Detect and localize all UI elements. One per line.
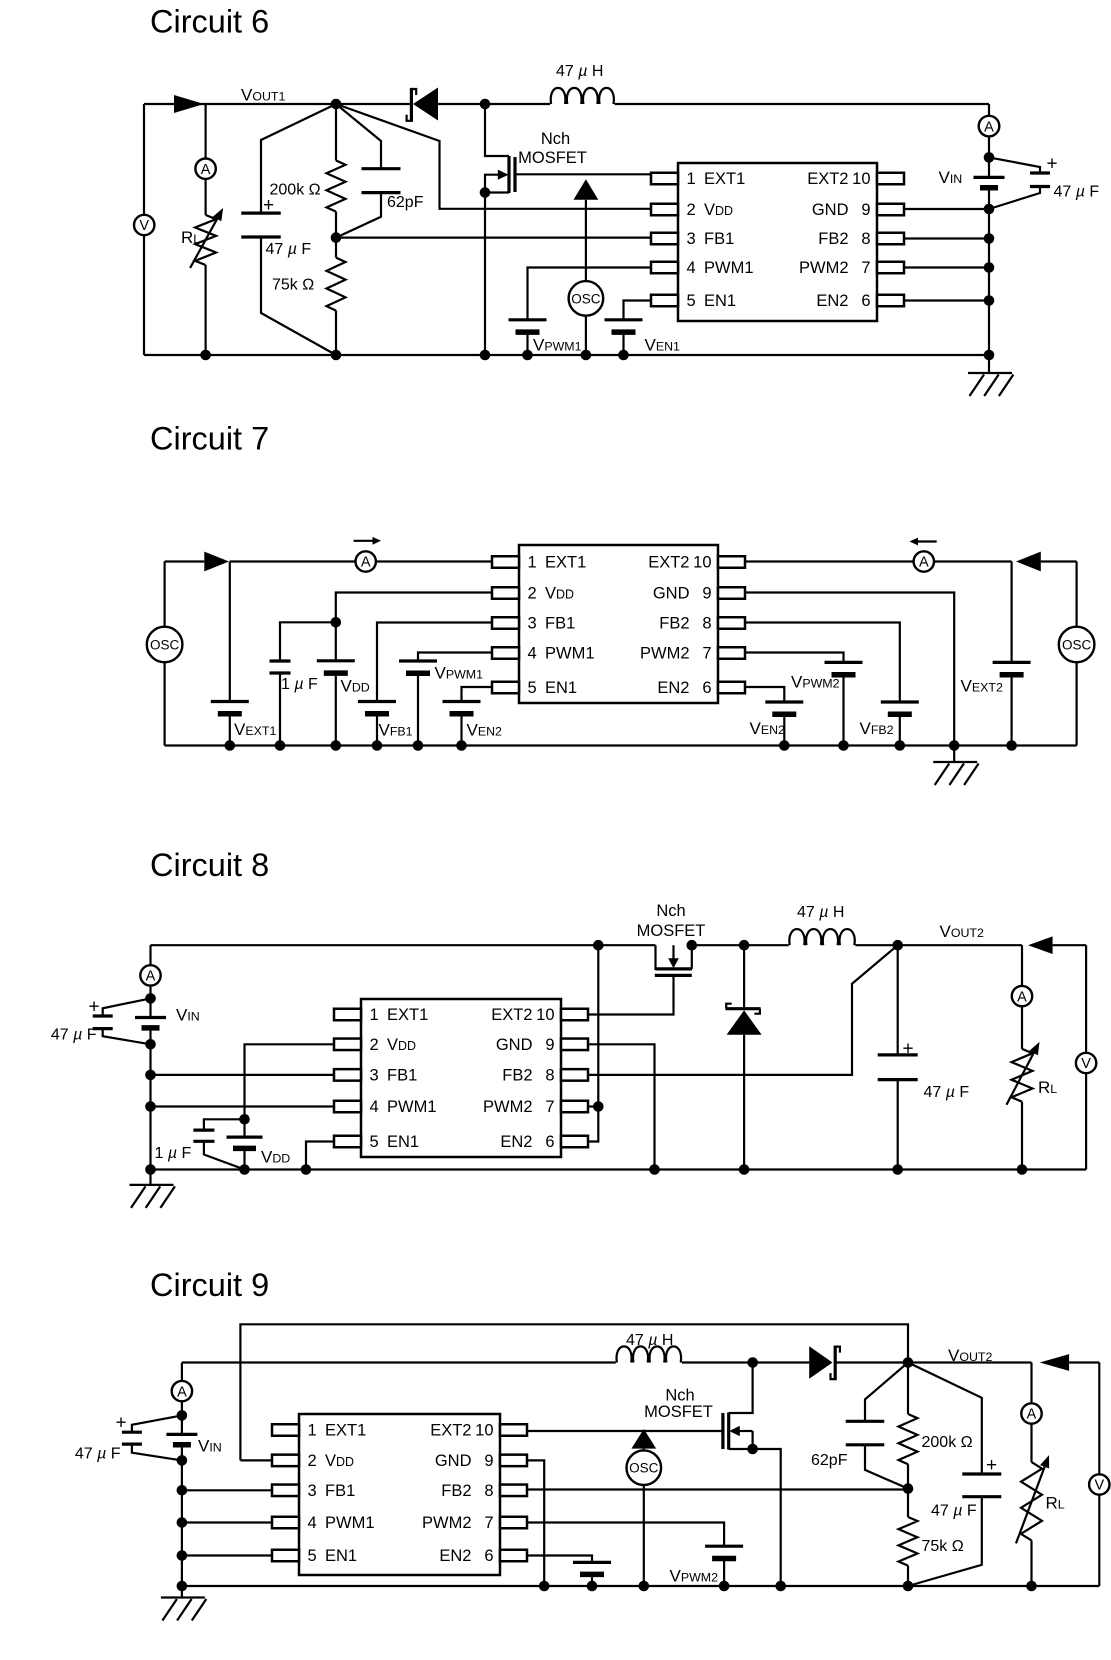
svg-text:47 µ F: 47 µ F — [924, 1084, 970, 1101]
svg-text:1: 1 — [370, 1006, 379, 1024]
battery VPWM2 c9 — [705, 1546, 743, 1558]
node rail VEN1 — [618, 350, 629, 361]
C8 pin 10 label EXT2 — [491, 1006, 554, 1024]
svg-text:PWM1: PWM1 — [387, 1098, 437, 1116]
wire to R1 200k — [335, 104, 337, 161]
transistor Q2 body line — [672, 945, 674, 959]
C6 pin 6 stub — [877, 295, 904, 307]
diode D3 triangle — [1016, 552, 1041, 572]
node rail VEN2 left — [456, 740, 467, 751]
node FB1 divider — [331, 232, 342, 243]
svg-text:VDD: VDD — [325, 1452, 354, 1470]
ammeter A out c8 — [1012, 986, 1032, 1006]
ammeter A in c8 — [140, 965, 160, 985]
node VOUT2 c9 — [903, 1357, 914, 1368]
C9 pin 5 stub — [272, 1550, 299, 1562]
svg-text:7: 7 — [484, 1514, 493, 1532]
wire VEXT2 to rail — [1010, 677, 1012, 745]
node PWM1 rail c9 — [177, 1517, 188, 1528]
diode D2 triangle — [204, 552, 229, 572]
wire 1uF branch c8 — [204, 1119, 245, 1130]
ground c7 — [933, 762, 978, 785]
C7 IC body — [519, 545, 718, 703]
node rail VPWM1 — [522, 350, 533, 361]
svg-text:47 µ F: 47 µ F — [51, 1027, 97, 1044]
C6 pin 5 label EN1 — [687, 292, 737, 310]
wire C-out c9 lead top — [908, 1363, 982, 1475]
inductor L1 47uH — [551, 88, 614, 104]
wire FB node to R2 — [335, 238, 337, 258]
wire right rail to ground — [988, 355, 990, 374]
wire R4 to rail — [907, 1566, 909, 1586]
wire left rail to ground c9 — [181, 1586, 183, 1598]
capacitor C-in 47uF lead bottom — [989, 187, 1040, 210]
C7 pin 5 stub — [492, 682, 519, 694]
svg-text:+: + — [88, 997, 99, 1018]
node rail D4 — [739, 1164, 750, 1175]
diode D4 cathode bar — [726, 1007, 761, 1010]
C9 pin 5 label EN1 — [308, 1547, 358, 1565]
wire VDD node to battery — [335, 622, 337, 661]
wire VEXT1 to rail — [229, 716, 231, 745]
svg-text:FB2: FB2 — [502, 1067, 532, 1085]
wire 1uF branch — [280, 622, 336, 661]
wire Q3 source to rail — [753, 1449, 781, 1586]
wire R3 to FB node — [907, 1464, 909, 1488]
transistor Q1 gate bar — [513, 157, 516, 192]
wire pin7 PWM2 branch — [745, 653, 844, 663]
C6 pin 1 label EXT1 — [687, 170, 746, 188]
C7 pin 2 label VDD — [528, 585, 575, 603]
C9 pin 10 stub — [500, 1424, 527, 1436]
svg-text:5: 5 — [370, 1133, 379, 1151]
node rail VFB1 — [372, 740, 383, 751]
C9 pin 8 label FB2 — [441, 1482, 493, 1500]
node rail OSC1 — [581, 350, 592, 361]
transistor Q1 source lead — [485, 191, 509, 193]
node rail VDD — [331, 740, 342, 751]
svg-text:9: 9 — [702, 585, 711, 603]
node rail VEXT1 — [225, 740, 236, 751]
svg-text:EXT2: EXT2 — [430, 1422, 471, 1440]
svg-text:A: A — [361, 555, 371, 571]
node VIN bottom c9 — [177, 1455, 188, 1466]
node VIN top c9 — [177, 1410, 188, 1421]
svg-text:Nch: Nch — [665, 1387, 694, 1405]
C9 pin 1 stub — [272, 1424, 299, 1436]
C9 pin 4 label PWM1 — [308, 1514, 375, 1532]
arrow A1 direction — [354, 537, 381, 545]
node RL bottom — [200, 350, 211, 361]
ground right — [968, 373, 1013, 396]
wire top rail c9 left — [182, 1361, 616, 1363]
transistor Q2 channel bar — [656, 967, 692, 970]
svg-text:6: 6 — [484, 1547, 493, 1565]
wire VIN c8 top lead — [149, 998, 151, 1017]
C8 pin 7 stub — [561, 1101, 588, 1113]
node VOUT2 c8 — [892, 940, 903, 951]
capacitor C5 1uF plates — [193, 1130, 214, 1141]
C6 pin 4 label PWM1 — [687, 259, 754, 277]
svg-text:9: 9 — [545, 1036, 554, 1054]
wire right rail upper — [988, 104, 990, 157]
wire Q2 gate to EXT2 — [588, 975, 674, 1014]
wire pin7 PWM2 c9 — [527, 1523, 724, 1547]
wire bottom rail — [144, 354, 989, 356]
svg-text:10: 10 — [693, 554, 711, 572]
transistor Q3 gate bar — [721, 1413, 724, 1449]
wire OSC4 to rail — [643, 1485, 645, 1586]
ammeter A2 right — [914, 551, 934, 571]
node VIN bottom c8 — [145, 1039, 156, 1050]
wire pin5 EN1 c8 — [306, 1142, 334, 1170]
ammeter A load — [195, 159, 215, 179]
node VOUT1 — [331, 99, 342, 110]
svg-text:PWM2: PWM2 — [799, 259, 849, 277]
svg-text:EN2: EN2 — [657, 679, 689, 697]
resistor RL c9 zigzag — [1021, 1462, 1042, 1540]
wire R4 75k top — [907, 1489, 909, 1517]
wire OSC1 to rail — [585, 316, 587, 355]
resistor R3 200k zigzag — [899, 1414, 918, 1464]
C7 pin 9 label GND — [653, 585, 712, 603]
node right rail FB2 — [984, 233, 995, 244]
capacitor C-in 47uF lead top — [989, 157, 1040, 173]
wire VDD loop c9 — [240, 1324, 908, 1460]
wire VEN2 right to rail — [783, 717, 785, 746]
C9 pin 7 label PWM2 — [422, 1514, 494, 1532]
diode D1 schottky triangle — [413, 88, 438, 121]
svg-text:Nch: Nch — [541, 130, 570, 148]
battery VPWM2 c7 — [825, 662, 863, 674]
transistor Q1 body arrow — [498, 170, 509, 180]
svg-text:8: 8 — [545, 1067, 554, 1085]
C6 pin 5 stub — [651, 295, 678, 307]
battery VEN2 right — [765, 702, 803, 714]
svg-text:EN1: EN1 — [545, 679, 577, 697]
wire pin5 EN1 to VEN1 — [624, 301, 652, 320]
svg-text:10: 10 — [475, 1422, 493, 1440]
diode D1 hook top — [411, 89, 416, 95]
wire pin10 gate c9 — [527, 1430, 723, 1432]
wire pin5 EN1 branch — [462, 687, 493, 702]
C6 pin 4 stub — [651, 262, 678, 274]
C9 pin 4 stub — [272, 1517, 299, 1529]
node top rail D4 — [739, 940, 750, 951]
battery VEN2 left — [443, 702, 481, 714]
wire RL branch top — [205, 104, 207, 215]
C9 pin 2 stub — [272, 1455, 299, 1467]
C9 pin 6 stub — [500, 1550, 527, 1562]
node rail EN2 c9 — [587, 1581, 598, 1592]
node Q3 source — [747, 1444, 758, 1455]
battery VEXT2 — [993, 662, 1031, 674]
node switch drain — [480, 99, 491, 110]
wire pin8 FB2 to rail — [904, 237, 989, 239]
oscillator OSC4 — [627, 1450, 662, 1485]
svg-text:FB1: FB1 — [387, 1067, 417, 1085]
wire pin9 GND c8 — [588, 1044, 655, 1169]
node bottom rail R2 — [331, 350, 342, 361]
wire pin6 EN2 c9 — [527, 1556, 592, 1563]
wire VEXT1 branch — [229, 562, 231, 702]
wire to C-out top — [261, 104, 336, 213]
svg-text:200k Ω: 200k Ω — [922, 1434, 973, 1451]
svg-text:7: 7 — [861, 259, 870, 277]
svg-text:A: A — [919, 555, 929, 571]
capacitor C-out c9 plates — [962, 1474, 1001, 1497]
wire pin3 FB1 c8 — [151, 1074, 335, 1076]
battery VIN c8 — [135, 1018, 166, 1028]
wire top rail c8 right — [692, 944, 789, 946]
node rail VPWM2 c7 — [838, 740, 849, 751]
C8 pin 4 label PWM1 — [370, 1098, 437, 1116]
battery VPWM1 c7 — [399, 661, 437, 673]
C7 pin 5 label EN1 — [528, 679, 578, 697]
C8 pin 8 stub — [561, 1069, 588, 1081]
wire VIN to GND node — [988, 188, 990, 209]
wire pin2 VDD c9 — [240, 1459, 272, 1461]
svg-text:EXT1: EXT1 — [545, 554, 586, 572]
svg-text:8: 8 — [484, 1482, 493, 1500]
svg-text:V: V — [139, 218, 149, 234]
wire pin9 GND to rail — [904, 208, 989, 210]
wire 62pF lead bottom — [865, 1445, 908, 1489]
capacitor C-in c9 lead bottom — [132, 1444, 182, 1460]
svg-text:5: 5 — [308, 1547, 317, 1565]
svg-text:OSC: OSC — [571, 291, 601, 306]
svg-text:200k Ω: 200k Ω — [270, 182, 321, 199]
C8 IC body — [361, 999, 561, 1157]
svg-text:10: 10 — [536, 1006, 554, 1024]
arrow RL c9 variable — [1016, 1455, 1049, 1543]
svg-text:PWM2: PWM2 — [483, 1098, 533, 1116]
svg-text:3: 3 — [687, 230, 696, 248]
node top rail EN2 branch — [593, 940, 604, 951]
node Q1 source — [480, 187, 491, 198]
inductor L3 47uH — [617, 1346, 682, 1362]
svg-text:47 µ F: 47 µ F — [931, 1503, 977, 1520]
resistor RL c8 zigzag — [1012, 1049, 1033, 1102]
node Q3 drain top — [747, 1357, 758, 1368]
C6 pin 9 label GND — [812, 201, 871, 219]
node rail RL c9 — [1026, 1581, 1037, 1592]
wire FB1 line — [336, 237, 651, 239]
inductor L2 47uH — [789, 929, 854, 945]
transistor Q3 body line — [740, 1430, 753, 1432]
svg-text:47 µ H: 47 µ H — [797, 904, 844, 921]
C6 pin 6 label EN2 — [816, 292, 870, 310]
node VIN top c8 — [145, 993, 156, 1004]
wire OSC4 link — [643, 1449, 645, 1451]
C9 pin 3 stub — [272, 1485, 299, 1497]
node rail VPWM1 c7 — [413, 740, 424, 751]
wire C-out bottom — [261, 237, 336, 355]
oscillator OSC2 left — [147, 627, 183, 663]
svg-text:6: 6 — [861, 292, 870, 310]
svg-text:OSC: OSC — [629, 1461, 659, 1476]
wire D4 top lead — [743, 945, 745, 1009]
svg-text:GND: GND — [812, 201, 849, 219]
svg-text:62pF: 62pF — [811, 1452, 848, 1469]
wire VIN top lead — [988, 157, 990, 177]
wire OSC1 to arrow — [585, 200, 587, 282]
C9 pin 10 label EXT2 — [430, 1422, 493, 1440]
C7 pin 7 stub — [718, 647, 745, 659]
node FB1 rail c8 — [145, 1070, 156, 1081]
svg-text:2: 2 — [370, 1036, 379, 1054]
svg-text:Circuit 6: Circuit 6 — [150, 4, 269, 40]
wire left rail c8 low — [149, 1044, 151, 1169]
svg-text:FB1: FB1 — [704, 230, 734, 248]
wire VPWM1 to rail — [526, 335, 528, 355]
svg-text:PWM2: PWM2 — [422, 1514, 472, 1532]
wire left rail to ground c8 — [149, 1170, 151, 1186]
diode D4 hook left — [726, 1004, 732, 1009]
svg-text:A: A — [146, 969, 156, 985]
C8 pin 6 stub — [561, 1136, 588, 1148]
wire EN2 bat to rail — [591, 1577, 593, 1586]
svg-text:PWM1: PWM1 — [325, 1514, 375, 1532]
battery EN2 c9 — [573, 1562, 611, 1574]
svg-text:VDD: VDD — [704, 201, 733, 219]
svg-text:47 µ H: 47 µ H — [626, 1332, 673, 1349]
node Q2 drain — [687, 940, 698, 951]
node rail GND c7 — [949, 740, 960, 751]
diode D5 triangle — [809, 1346, 832, 1378]
wire 62pF lead top — [865, 1363, 908, 1422]
svg-text:A: A — [201, 162, 211, 178]
wire pin8 FB2 c9 — [527, 1488, 908, 1490]
svg-text:EXT2: EXT2 — [491, 1006, 532, 1024]
svg-text:+: + — [1046, 154, 1057, 175]
C7 pin 4 stub — [492, 647, 519, 659]
wire pin4 PWM1 c8 — [151, 1105, 335, 1107]
arrow VOUT2 c9 — [1040, 1354, 1069, 1371]
diode D4 hook right — [754, 1009, 760, 1014]
svg-text:47 µ F: 47 µ F — [1054, 184, 1100, 201]
resistor R2 75k zigzag — [327, 258, 346, 311]
svg-text:VDD: VDD — [387, 1036, 416, 1054]
svg-text:EN1: EN1 — [325, 1547, 357, 1565]
node rail VPWM2 c9 — [719, 1581, 730, 1592]
C6 pin 3 label FB1 — [687, 230, 735, 248]
svg-text:6: 6 — [545, 1133, 554, 1151]
C7 pin 10 label EXT2 — [648, 554, 711, 572]
oscillator OSC4 arrow — [631, 1429, 656, 1449]
svg-text:EN1: EN1 — [387, 1133, 419, 1151]
svg-text:EXT1: EXT1 — [325, 1422, 366, 1440]
svg-text:+: + — [986, 1455, 997, 1476]
C8 pin 3 label FB1 — [370, 1067, 418, 1085]
battery VDD c8 — [227, 1137, 263, 1148]
node FB divider c9 — [903, 1483, 914, 1494]
svg-text:3: 3 — [528, 615, 537, 633]
svg-text:1: 1 — [687, 170, 696, 188]
wire Q3 body to source — [751, 1431, 753, 1449]
C6 pin 9 stub — [877, 204, 904, 216]
node rail VFB2 — [895, 740, 906, 751]
transistor Q1 channel bar — [507, 156, 510, 193]
svg-text:1 µ F: 1 µ F — [281, 676, 318, 693]
arrow RL variable — [190, 208, 223, 268]
C8 pin 6 label EN2 — [500, 1133, 554, 1151]
wire to C3 62pF top — [336, 104, 381, 169]
wire pin4 PWM1 c9 — [182, 1521, 272, 1523]
battery VDD — [317, 661, 355, 673]
wire pin3 FB1 branch — [377, 623, 492, 702]
transistor Q1 body line — [485, 175, 500, 193]
C7 pin 4 label PWM1 — [528, 645, 595, 663]
node right rail PWM2 — [984, 262, 995, 273]
node rail GND c9 — [539, 1581, 550, 1592]
node rail VEXT2 — [1006, 740, 1017, 751]
wire VOUT1 top rail — [144, 103, 411, 105]
svg-text:2: 2 — [528, 585, 537, 603]
svg-text:MOSFET: MOSFET — [637, 922, 706, 940]
C8 pin 8 label FB2 — [502, 1067, 554, 1085]
svg-text:OSC: OSC — [1062, 637, 1092, 652]
diode D5 cathode bar — [834, 1346, 837, 1381]
wire RL c8 top — [1021, 945, 1023, 1049]
wire right rail mid — [988, 209, 990, 355]
svg-text:4: 4 — [308, 1514, 317, 1532]
wire RL c8 to rail — [1021, 1102, 1023, 1170]
wire pin2 VDD branch — [336, 593, 492, 623]
C9 pin 8 stub — [500, 1485, 527, 1497]
ammeter A out c9 — [1021, 1403, 1041, 1423]
wire EN2 PWM2 branch — [588, 945, 598, 1141]
wire C-out c8 top — [897, 945, 899, 1055]
wire pin7 PWM2 to rail — [904, 266, 989, 268]
svg-text:+: + — [115, 1413, 126, 1434]
svg-text:5: 5 — [687, 292, 696, 310]
wire VFB1 to rail — [376, 716, 378, 745]
wire inductor to right rail — [615, 103, 989, 105]
C7 pin 9 stub — [718, 587, 745, 599]
node rail Q3 — [775, 1581, 786, 1592]
node PWM1 rail c8 — [145, 1101, 156, 1112]
node rail bottom left c9 — [177, 1581, 188, 1592]
C8 pin 5 stub — [334, 1136, 361, 1148]
diode D1 cathode bar — [410, 88, 413, 122]
svg-text:PWM1: PWM1 — [545, 645, 595, 663]
C6 pin 10 stub — [877, 173, 904, 185]
wire bottom rail c7 — [165, 744, 1077, 746]
C6 IC body — [678, 163, 877, 321]
svg-text:EXT1: EXT1 — [704, 170, 745, 188]
wire 1uF to rail c8 — [204, 1141, 245, 1169]
svg-text:EN1: EN1 — [704, 292, 736, 310]
svg-text:1: 1 — [528, 554, 537, 572]
wire pin8 FB2 c8 — [588, 945, 898, 1075]
svg-text:47 µ F: 47 µ F — [266, 241, 312, 258]
node right rail EN2 — [984, 295, 995, 306]
wire VDD node to bat c8 — [243, 1119, 245, 1137]
svg-text:Circuit 9: Circuit 9 — [150, 1267, 269, 1303]
resistor R4 75k zigzag — [899, 1517, 918, 1566]
svg-text:10: 10 — [852, 170, 870, 188]
svg-text:6: 6 — [702, 679, 711, 697]
node EN1 rail c9 — [177, 1550, 188, 1561]
battery VIN c9 — [166, 1434, 197, 1444]
arrow A2 direction — [910, 538, 937, 546]
resistor RL zigzag — [195, 215, 216, 265]
node rail VDD c8 — [239, 1164, 250, 1175]
capacitor C-in c8 lead bottom — [103, 1029, 151, 1045]
C9 pin 7 stub — [500, 1517, 527, 1529]
svg-text:FB2: FB2 — [818, 230, 848, 248]
